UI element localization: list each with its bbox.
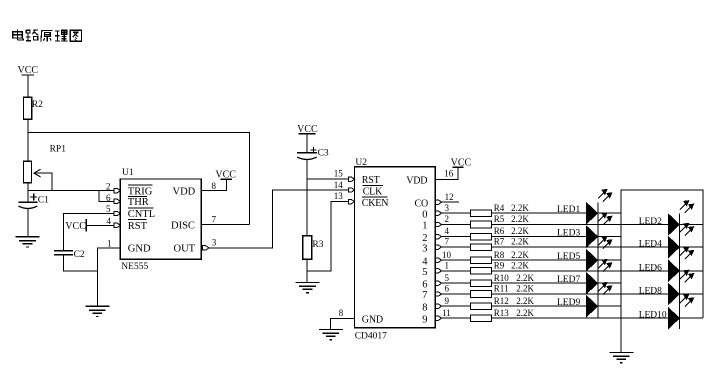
svg-text:DISC: DISC: [171, 220, 195, 231]
ground LED-common: [609, 353, 633, 363]
svg-text:LED1: LED1: [557, 205, 580, 215]
svg-text:2.2K: 2.2K: [511, 250, 529, 260]
svg-text:OUT: OUT: [174, 244, 196, 255]
wire DISC net top run: [28, 133, 250, 225]
wire R6 to LED3: [492, 236, 621, 238]
svg-text:CKEN: CKEN: [362, 198, 388, 209]
power VCC C3: [297, 124, 318, 135]
LED LED7: [586, 260, 611, 295]
LED LED6: [668, 247, 693, 282]
value label R9 2.2K: [494, 260, 530, 270]
svg-text:3: 3: [445, 203, 450, 213]
svg-text:LED9: LED9: [557, 298, 580, 308]
svg-text:VDD: VDD: [173, 186, 196, 197]
svg-text:CO: CO: [415, 199, 429, 210]
wire C3 to R3: [306, 160, 308, 236]
U2 output Q4 pin arrow and wire: [435, 259, 470, 261]
svg-text:2.2K: 2.2K: [511, 226, 529, 236]
svg-text:9: 9: [422, 314, 427, 325]
U2 pin names: [362, 175, 428, 326]
svg-text:8: 8: [339, 308, 344, 318]
wire TRIG net: [28, 190, 120, 192]
wire C1 to ground: [27, 209, 29, 237]
svg-text:2: 2: [445, 214, 450, 224]
svg-text:CNTL: CNTL: [128, 209, 155, 220]
svg-text:LED5: LED5: [557, 252, 580, 262]
svg-text:11: 11: [442, 308, 451, 318]
svg-text:LED10: LED10: [639, 311, 667, 321]
LED LED5: [586, 237, 611, 272]
wire R2 bottom to RP1 top: [27, 119, 29, 161]
value label R6 2.2K: [494, 226, 530, 236]
op IC U1 NE555 body: [120, 168, 201, 272]
svg-text:6: 6: [106, 193, 111, 203]
U2 output Q7 pin arrow and wire: [435, 293, 470, 295]
wire LED8 cathode to right bus: [680, 293, 703, 295]
svg-text:R12: R12: [494, 296, 509, 306]
svg-text:2.2K: 2.2K: [511, 237, 529, 247]
svg-text:C2: C2: [74, 250, 85, 260]
wire R3 bottom to ground: [306, 259, 308, 282]
U1 OUT pin arrow: [203, 246, 209, 250]
wire R5 to LED2: [492, 224, 669, 226]
wire left LED cathode bus: [597, 202, 599, 318]
wire U1 pin8 to VCC: [201, 179, 226, 190]
svg-text:R3: R3: [312, 240, 323, 250]
svg-text:3: 3: [212, 238, 217, 248]
U2 output Q8 pin arrow and wire: [435, 305, 470, 307]
U2 CO pin arrow: [435, 200, 441, 204]
value label R11 2.2K: [494, 284, 535, 294]
svg-text:7: 7: [422, 290, 427, 301]
wire R4 to LED1: [492, 212, 621, 214]
potentiometer RP1: [24, 144, 67, 190]
svg-text:RST: RST: [362, 175, 380, 186]
U2 left pin numbers 15 14 13: [334, 169, 344, 202]
svg-text:LED4: LED4: [639, 240, 662, 250]
svg-text:13: 13: [334, 191, 344, 201]
svg-text:16: 16: [444, 169, 454, 179]
wire DISC stub: [201, 224, 249, 226]
svg-text:2: 2: [106, 182, 111, 192]
U1 pin numbers: [106, 181, 217, 249]
LED LED1: [586, 190, 611, 225]
svg-text:2.2K: 2.2K: [511, 214, 529, 224]
U2 input pin arrows: [348, 177, 354, 204]
wire THR jog: [99, 191, 120, 202]
U2 output Q3 pin arrow and wire: [435, 246, 470, 248]
svg-text:VDD: VDD: [406, 176, 427, 187]
wire R12 to LED9: [492, 305, 621, 307]
ground U2-GND: [319, 330, 343, 340]
resistor R12: [470, 303, 491, 310]
value label R7 2.2K: [494, 237, 530, 247]
wire RST-U2 stub: [307, 178, 354, 180]
wire right LED cathode bus: [679, 214, 681, 329]
svg-text:GND: GND: [362, 315, 383, 326]
ground R3: [296, 283, 320, 293]
wire C2 bottom to GND net: [63, 255, 97, 271]
power VCC RST-U1: [65, 219, 86, 232]
svg-text:5: 5: [422, 267, 427, 278]
wire R9 to LED6: [492, 270, 669, 272]
U1 pin names: [128, 185, 196, 254]
svg-text:9: 9: [445, 296, 450, 306]
value label R12 2.2K: [494, 296, 535, 306]
svg-text:CD4017: CD4017: [355, 332, 387, 342]
wire CKEN net: [307, 202, 354, 272]
svg-text:8: 8: [422, 302, 427, 313]
svg-text:10: 10: [442, 250, 452, 260]
wire R8 to LED5: [492, 259, 621, 261]
wire LED10 cathode to right bus: [680, 317, 703, 319]
svg-text:5: 5: [445, 273, 450, 283]
svg-text:4: 4: [445, 226, 450, 236]
svg-text:1: 1: [422, 221, 427, 232]
power VCC U1-pin8: [215, 169, 236, 180]
resistor R13: [470, 315, 491, 322]
title 电路原理图: [13, 30, 82, 42]
resistor R2: [24, 97, 44, 119]
ground U1-GND: [85, 306, 109, 316]
wire LED6 cathode to right bus: [680, 270, 703, 272]
U2 output Q9 pin arrow and wire: [435, 317, 470, 319]
svg-text:RST: RST: [128, 221, 148, 232]
wire LED2 cathode to right bus: [680, 224, 703, 226]
svg-text:LED2: LED2: [639, 217, 662, 227]
resistor R8: [470, 257, 491, 264]
svg-text:LED8: LED8: [639, 287, 662, 297]
wire CO stub: [435, 201, 459, 203]
ground C1: [16, 237, 40, 247]
U2 output Q5 pin arrow and wire: [435, 270, 470, 272]
power VCC U2-pin16: [451, 157, 472, 168]
svg-text:LED3: LED3: [557, 228, 580, 238]
svg-text:R2: R2: [32, 100, 43, 110]
svg-text:R6: R6: [494, 226, 505, 236]
resistor R11: [470, 291, 491, 298]
svg-text:1: 1: [107, 239, 112, 249]
value label R8 2.2K: [494, 250, 530, 260]
U2 output Q0 pin arrow and wire: [435, 212, 470, 214]
power VCC top-left: [18, 65, 39, 76]
svg-text:6: 6: [422, 279, 427, 290]
resistor R6: [470, 233, 491, 240]
LED LED9: [586, 283, 611, 318]
wire LED4 cathode to right bus: [680, 246, 703, 248]
resistor R3: [303, 236, 324, 260]
svg-text:2.2K: 2.2K: [516, 273, 534, 283]
svg-text:VCC: VCC: [65, 221, 86, 232]
svg-text:TRIG: TRIG: [128, 186, 153, 197]
U2 output Q2 pin arrow and wire: [435, 236, 470, 238]
svg-text:R5: R5: [494, 214, 505, 224]
capacitor C1: [18, 194, 49, 209]
svg-text:R13: R13: [494, 308, 510, 318]
wire RST-U1 stub: [86, 224, 120, 226]
svg-text:2.2K: 2.2K: [511, 260, 529, 270]
svg-text:7: 7: [445, 237, 450, 247]
svg-text:4: 4: [422, 256, 428, 267]
wire cathode return loop: [621, 190, 703, 352]
LED LED2: [668, 201, 693, 236]
svg-text:C1: C1: [38, 196, 49, 206]
resistor R10: [470, 280, 491, 287]
svg-text:2.2K: 2.2K: [516, 296, 534, 306]
resistor R9: [470, 268, 491, 275]
resistor R5: [470, 221, 491, 228]
value label R13 2.2K: [494, 308, 535, 318]
svg-text:1: 1: [445, 260, 450, 270]
svg-text:R4: R4: [494, 203, 505, 213]
LED LED4: [668, 223, 693, 258]
svg-text:4: 4: [107, 216, 112, 226]
svg-text:3: 3: [422, 243, 427, 254]
value label R10 2.2K: [494, 273, 535, 283]
wire R13 to LED10: [492, 317, 669, 319]
svg-text:12: 12: [445, 192, 454, 202]
wire R7 to LED4: [492, 246, 669, 248]
IC U2 CD4017 body: [355, 158, 436, 341]
wire VCC to R2: [27, 75, 29, 97]
svg-text:C3: C3: [318, 148, 329, 158]
wire OUT to CLK: [201, 190, 354, 248]
svg-text:GND: GND: [128, 244, 151, 255]
svg-text:THR: THR: [128, 197, 149, 208]
wire U2 pin16 to VCC: [435, 167, 458, 179]
capacitor C2: [54, 250, 85, 260]
wire U1 pin1 to ground: [98, 248, 121, 306]
value label R4 2.2K: [494, 203, 530, 213]
U2 output Q1 pin arrow and wire: [435, 224, 470, 226]
wire VCC to C3: [306, 134, 308, 153]
svg-text:CLK: CLK: [363, 187, 383, 198]
svg-text:2.2K: 2.2K: [516, 284, 534, 294]
svg-text:U2: U2: [355, 158, 367, 168]
wire R10 to LED7: [492, 282, 621, 284]
capacitor C3: [297, 147, 329, 160]
svg-text:RP1: RP1: [50, 144, 67, 154]
svg-text:NE555: NE555: [121, 262, 148, 272]
svg-text:5: 5: [106, 204, 111, 214]
svg-text:6: 6: [445, 284, 450, 294]
svg-text:R10: R10: [494, 273, 510, 283]
wire RP1 bottom to C1: [27, 183, 29, 203]
svg-text:0: 0: [422, 209, 427, 220]
svg-text:2.2K: 2.2K: [516, 308, 534, 318]
resistor R4: [470, 210, 491, 217]
LED LED8: [668, 270, 693, 305]
LED LED3: [586, 213, 611, 248]
resistor R7: [470, 244, 491, 251]
U2 output Q6 pin arrow and wire: [435, 282, 470, 284]
value label R5 2.2K: [494, 214, 530, 224]
U1 input pin arrows: [114, 188, 120, 227]
svg-text:R9: R9: [494, 260, 505, 270]
LED LED10: [668, 295, 693, 330]
svg-text:R11: R11: [494, 284, 509, 294]
svg-text:R7: R7: [494, 237, 505, 247]
svg-text:2.2K: 2.2K: [511, 203, 529, 213]
svg-text:R8: R8: [494, 250, 505, 260]
svg-text:LED6: LED6: [639, 263, 662, 273]
svg-text:14: 14: [334, 180, 344, 190]
svg-text:8: 8: [212, 181, 217, 191]
svg-text:LED7: LED7: [557, 275, 580, 285]
wire U2 pin8 GND: [331, 319, 355, 330]
svg-text:U1: U1: [122, 168, 134, 178]
wire CNTL to C2: [63, 214, 120, 251]
svg-text:15: 15: [334, 169, 344, 179]
wire R11 to LED8: [492, 293, 669, 295]
svg-text:2: 2: [422, 233, 427, 244]
svg-text:7: 7: [212, 215, 217, 225]
